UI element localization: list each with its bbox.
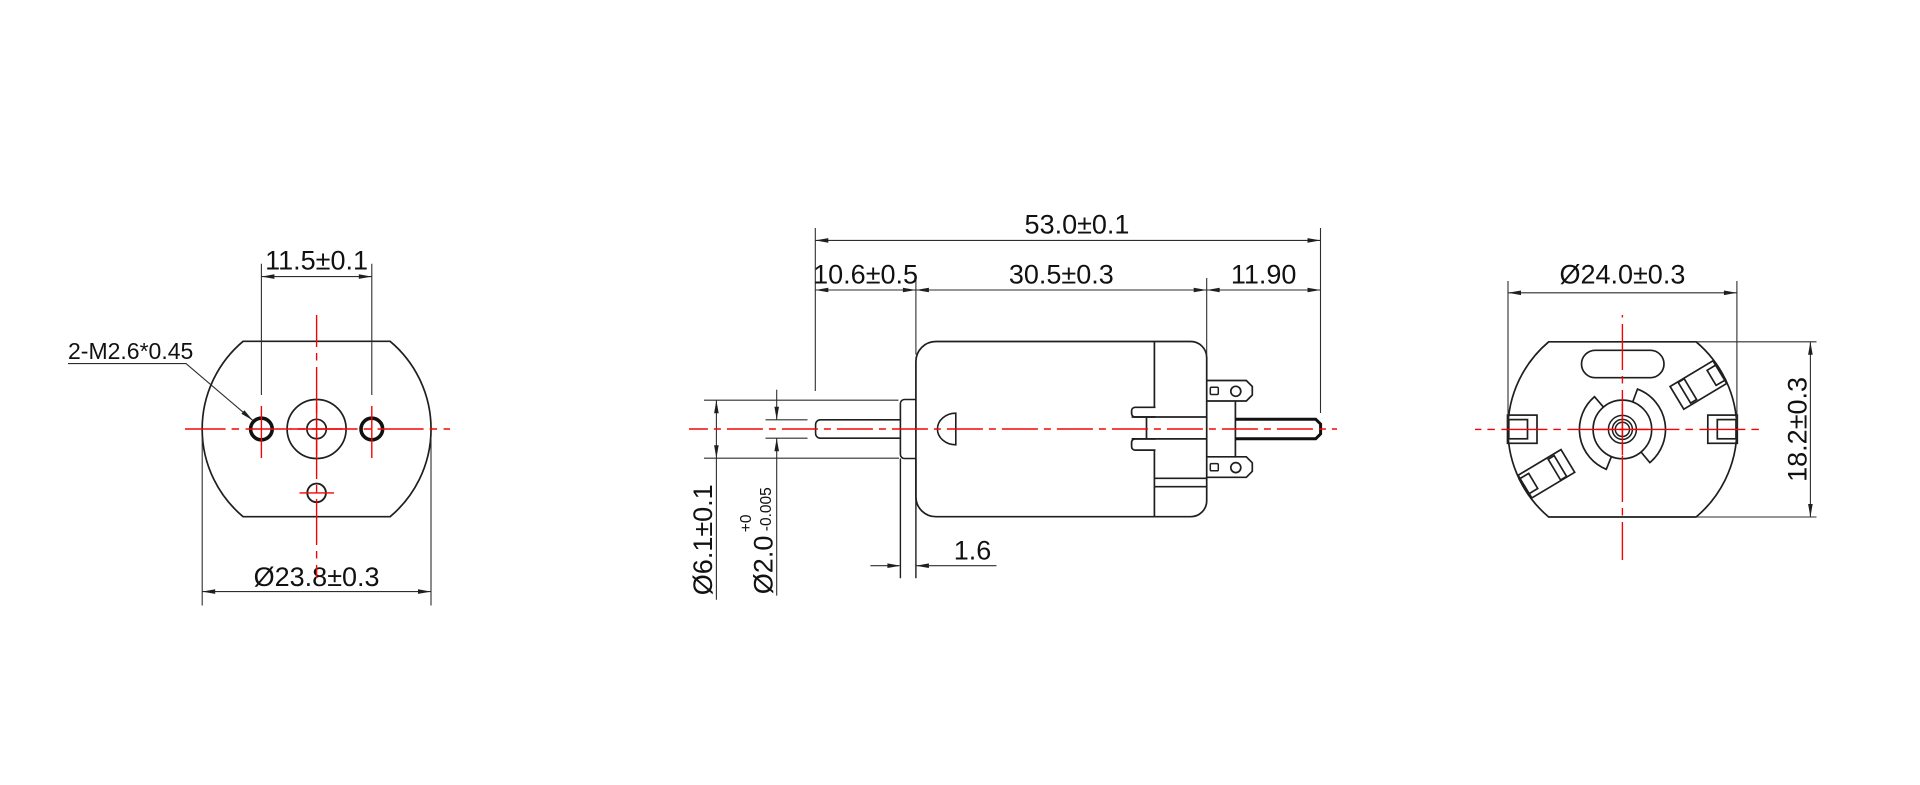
side view: endbell bottom seam lines	[1154, 477, 1206, 479]
rear view: upper-right folded tab fold stripe	[1678, 379, 1696, 403]
dim Ø6.1 dimension line with arrows	[715, 400, 717, 600]
side view: upper terminal tab	[1207, 381, 1253, 402]
side view: terminal support column edge	[1234, 401, 1236, 457]
red center mark ticks at left view center	[291, 428, 343, 430]
side view: bearing bushing	[900, 400, 916, 459]
left view red centerlines	[185, 428, 450, 430]
svg-text:1.6: 1.6	[954, 536, 992, 566]
dim 53.0 extension line D (rear shaft end)	[1320, 228, 1322, 413]
dimension 53.0±0.1 line	[815, 239, 1320, 241]
dimension 30.5±0.3 line	[916, 289, 1207, 291]
rear view: left crimp pad inner square	[1509, 420, 1528, 439]
dim extension line C (endbell face)	[1206, 278, 1208, 355]
red center mark ticks at rear view center	[1596, 428, 1648, 430]
dimension 11.5±0.1 dimension line with arrows	[261, 276, 371, 278]
dimension 10.6±0.5 line	[815, 289, 916, 291]
dim 53.0 extension line A (front shaft tip)	[814, 228, 816, 391]
dim 18.2 extension lines	[1697, 341, 1817, 343]
dim Ø2.0 shaft edge ticks	[766, 419, 808, 421]
side view: brush channel upper tab	[1132, 407, 1156, 417]
dimension 11.5±0.1 extension lines	[260, 264, 262, 395]
rear view: upper-right folded tab hole	[1707, 365, 1726, 386]
side view red centerline	[689, 428, 1337, 430]
rear view red centerlines	[1475, 428, 1765, 430]
rear view: lower-left folded tab hole	[1519, 473, 1538, 494]
rear view: right crimp pad inner square	[1717, 420, 1736, 439]
dim extension line B (body front face)	[915, 278, 917, 355]
dimension Ø23.8±0.3 dimension line with arrows	[202, 591, 431, 593]
left view: bottom hole	[307, 484, 326, 503]
svg-text:Ø6.1±0.1: Ø6.1±0.1	[688, 484, 718, 595]
side view: front shaft	[816, 420, 901, 438]
side view: can/endbell separation line	[1153, 342, 1155, 408]
dim Ø24.0 extension lines	[1507, 281, 1509, 427]
dimension Ø23.8±0.3 extension lines	[201, 437, 203, 606]
upper terminal square hole	[1210, 387, 1218, 394]
dimension 18.2±0.3 line	[1809, 342, 1811, 517]
svg-text:Ø2.0: Ø2.0	[749, 536, 779, 595]
left view: left tapped hole M2.6	[251, 418, 273, 440]
svg-text:11.90: 11.90	[1231, 260, 1297, 290]
side view: internal shaft dome	[937, 413, 955, 445]
rear view: lower-left folded tab fold stripe	[1548, 456, 1566, 480]
rear view: lower-left folded tab outer rect	[1518, 450, 1575, 498]
dim Ø6.1 extension lines	[704, 399, 899, 401]
side view: lower terminal tab	[1207, 457, 1253, 478]
rear view: bearing boss circle	[1593, 400, 1652, 459]
side view: brush channel lower tab	[1132, 439, 1156, 450]
dim 1.6 flange thickness	[870, 565, 899, 567]
left view: right tapped hole M2.6	[361, 418, 383, 440]
rear view: upper-right folded tab outer rect	[1670, 361, 1727, 409]
red tick through right tapped hole	[371, 406, 373, 458]
left view: center boss circle	[287, 400, 346, 459]
side view: brush channel lines across endbell	[1132, 416, 1207, 418]
side view: motor body (can + endbell outline)	[916, 342, 1207, 517]
rear view: motor back face outline	[1508, 342, 1737, 517]
rear view: vent slot (stadium)	[1582, 350, 1665, 377]
svg-text:30.5±0.3: 30.5±0.3	[1009, 260, 1114, 290]
svg-text:-0.005: -0.005	[758, 487, 775, 531]
svg-text:2-M2.6*0.45: 2-M2.6*0.45	[68, 338, 193, 364]
rear view: left crimp pad outer rect	[1508, 415, 1538, 443]
red tick through bottom hole	[300, 492, 335, 494]
side view: rear shaft (thick)	[1235, 419, 1320, 439]
rear view: inner circles	[1608, 415, 1636, 443]
dim Ø2.0 arrow lines	[776, 390, 778, 420]
svg-text:53.0±0.1: 53.0±0.1	[1025, 209, 1130, 239]
left view: motor front face outline	[202, 341, 431, 516]
svg-text:+0: +0	[738, 514, 755, 532]
lower terminal square hole	[1210, 464, 1218, 471]
rear view: bearing retainer arc band (right)	[1633, 389, 1666, 463]
side view: mounting flange edges below body	[899, 459, 901, 579]
side view: bearing recess line	[1146, 417, 1148, 439]
svg-text:18.2±0.3: 18.2±0.3	[1783, 377, 1813, 482]
left view: center shaft hole	[307, 419, 326, 438]
rear view: bearing retainer arc band (left)	[1579, 397, 1611, 470]
upper terminal round hole	[1231, 386, 1241, 396]
svg-text:11.5±0.1: 11.5±0.1	[265, 246, 368, 276]
lower terminal round hole	[1231, 463, 1241, 473]
red tick through left tapped hole	[260, 406, 262, 458]
dimension Ø24.0±0.3 line	[1508, 292, 1737, 294]
rear view: right crimp pad outer rect	[1708, 415, 1738, 443]
dimension 11.90 line	[1207, 289, 1321, 291]
svg-text:10.6±0.5: 10.6±0.5	[813, 260, 918, 290]
svg-text:Ø24.0±0.3: Ø24.0±0.3	[1559, 260, 1685, 290]
